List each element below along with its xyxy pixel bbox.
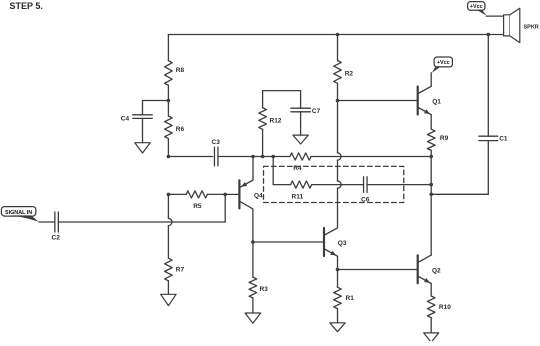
svg-text:Q4: Q4 xyxy=(254,192,263,199)
ground under R3 xyxy=(245,313,261,323)
wire mid rail left segment xyxy=(168,156,212,158)
wire hop left bus over signal wire xyxy=(168,218,172,225)
label Q3 xyxy=(338,240,347,247)
label R5 xyxy=(193,203,202,210)
ground under R10 xyxy=(424,333,439,343)
label Q2 xyxy=(432,268,441,275)
svg-text:C2: C2 xyxy=(52,235,61,242)
svg-text:R8: R8 xyxy=(176,67,185,74)
resistor R10 xyxy=(427,296,435,333)
capacitor C7 xyxy=(291,108,311,112)
resistor R8 xyxy=(165,61,173,101)
svg-text:C6: C6 xyxy=(361,197,370,204)
svg-text:R10: R10 xyxy=(439,304,451,311)
svg-text:R3: R3 xyxy=(260,286,269,293)
resistor R2 xyxy=(334,61,342,101)
label Q4 xyxy=(254,192,263,199)
wire mid rail to R4 xyxy=(218,156,290,158)
capacitor C1 xyxy=(479,136,498,140)
capacitor C4 xyxy=(133,101,153,143)
node Q3 emitter / R1 / Q2 base junction xyxy=(336,268,340,272)
node Q4 collector / Q3 base / R3 junction xyxy=(251,240,255,244)
label C1 xyxy=(499,136,508,143)
wire hop centre bus over R11-C6 wire xyxy=(338,181,342,188)
svg-text:C3: C3 xyxy=(212,139,221,146)
label C7 xyxy=(312,108,321,115)
ground under C4 xyxy=(135,143,151,153)
label SPKR xyxy=(524,25,539,31)
svg-text:R6: R6 xyxy=(176,126,185,133)
node mid rail / right bus junction xyxy=(429,155,433,159)
node left bus / mid rail junction xyxy=(167,155,171,159)
wire top +V rail xyxy=(168,34,503,36)
transistor Q2 xyxy=(418,194,432,296)
svg-text:SPKR: SPKR xyxy=(524,25,539,31)
wire R2 top lead xyxy=(337,35,339,61)
svg-text:C7: C7 xyxy=(312,108,321,115)
label R10 xyxy=(439,304,451,311)
svg-text:+Vcc: +Vcc xyxy=(470,4,483,10)
wire left bus R5 to signal hop xyxy=(167,194,169,218)
wire to C4 xyxy=(143,100,169,102)
wire Q2 base xyxy=(338,269,418,271)
label Q1 xyxy=(432,99,441,106)
label R6 xyxy=(176,126,185,133)
label C3 xyxy=(212,139,221,146)
wire C1 bottom branch xyxy=(431,141,488,195)
node R5/riser/Q4-base junction xyxy=(223,193,227,197)
wire R12 to C7 xyxy=(263,91,301,109)
wire Q3 base xyxy=(253,241,324,243)
resistor R4 xyxy=(290,153,311,160)
label R2 xyxy=(345,70,354,77)
wire hop centre bus over mid rail xyxy=(338,153,342,160)
svg-text:Q2: Q2 xyxy=(432,268,441,275)
node C1 wire / right bus junction xyxy=(429,193,433,197)
node R5 left junction xyxy=(167,193,171,197)
ground under R7 xyxy=(161,294,177,305)
resistor R12 xyxy=(259,91,267,157)
ground under R1 xyxy=(330,323,345,332)
label C4 xyxy=(121,116,130,123)
label R1 xyxy=(346,295,355,302)
svg-text:+Vcc: +Vcc xyxy=(437,60,450,66)
label C6 xyxy=(361,197,370,204)
node junction top rail / C1 branch xyxy=(487,33,491,37)
svg-text:Q3: Q3 xyxy=(338,240,347,247)
svg-text:C1: C1 xyxy=(499,136,508,143)
capacitor C2 xyxy=(55,212,59,232)
wire R8 top lead xyxy=(167,35,169,61)
node R2 bottom / Q1 base junction xyxy=(336,99,340,103)
capacitor C6 xyxy=(364,177,368,193)
svg-text:R11: R11 xyxy=(292,193,304,200)
wire signal to riser xyxy=(58,221,225,223)
wire centre bus middle xyxy=(337,160,339,181)
wire riser to R5 node xyxy=(224,194,226,222)
node R12 junction xyxy=(261,155,265,159)
wire C1 branch from top rail xyxy=(487,35,489,137)
wire signal in xyxy=(39,221,55,223)
node Q4 emitter junction xyxy=(251,155,255,159)
wire R5 right lead xyxy=(207,193,239,195)
power +Vcc speaker xyxy=(468,2,487,16)
resistor R6 xyxy=(165,101,173,157)
label R3 xyxy=(260,286,269,293)
wire R11 to C6 xyxy=(312,184,364,186)
svg-text:SIGNAL IN: SIGNAL IN xyxy=(5,210,32,216)
svg-text:R1: R1 xyxy=(346,295,355,302)
svg-text:STEP 5.: STEP 5. xyxy=(10,1,43,11)
signal-in callout xyxy=(1,207,39,222)
label C2 xyxy=(52,235,61,242)
capacitor C3 xyxy=(214,147,218,166)
svg-text:R7: R7 xyxy=(176,266,185,273)
resistor R9 xyxy=(427,129,435,156)
transistor Q3 xyxy=(324,228,338,270)
label R7 xyxy=(176,266,185,273)
node R8/R6/C4 junction xyxy=(167,99,171,103)
ground under C7 xyxy=(293,135,308,144)
resistor R3 xyxy=(249,242,257,313)
resistor R5 xyxy=(186,191,207,198)
dashed feedback network box xyxy=(264,166,404,202)
wire R11 branch drop xyxy=(273,157,290,185)
wire mid rail R4 to right bus xyxy=(311,156,431,158)
wire centre bus upper xyxy=(337,101,339,153)
label R12 xyxy=(270,117,282,124)
node R11 branch junction xyxy=(271,155,275,159)
label R4 xyxy=(293,165,302,172)
svg-text:Q1: Q1 xyxy=(432,99,441,106)
wire R5 left lead xyxy=(168,193,186,195)
svg-text:R9: R9 xyxy=(440,135,449,142)
resistor R11 xyxy=(291,181,312,188)
svg-text:R12: R12 xyxy=(270,117,282,124)
transistor Q1 xyxy=(418,73,432,130)
label R11 xyxy=(292,193,304,200)
wire right bus mid xyxy=(430,157,432,195)
wire C7 to ground xyxy=(300,112,302,135)
title STEP 5. xyxy=(10,1,43,11)
wire centre bus lower xyxy=(337,188,339,228)
wire left bus to R7 xyxy=(167,226,169,259)
svg-text:C4: C4 xyxy=(121,116,130,123)
resistor R7 xyxy=(165,258,173,294)
svg-text:R5: R5 xyxy=(193,203,202,210)
resistor R1 xyxy=(334,270,342,323)
power +Vcc Q1 xyxy=(432,57,453,73)
node C6 wire / right bus junction xyxy=(429,183,433,187)
svg-text:R2: R2 xyxy=(345,70,354,77)
transistor Q4 xyxy=(239,157,253,243)
label R8 xyxy=(176,67,185,74)
wire speaker top terminal xyxy=(486,15,503,17)
speaker SPKR xyxy=(504,8,520,42)
label R9 xyxy=(440,135,449,142)
wire Q1 base xyxy=(338,100,418,102)
wire C6 to right bus xyxy=(367,184,431,186)
node junction top rail / R2 bus xyxy=(336,33,340,37)
